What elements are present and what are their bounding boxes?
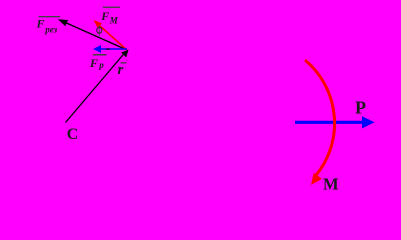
vector F_M (red magnetic force arrow from P up-left) <box>94 20 128 50</box>
svg-text:F: F <box>89 56 98 70</box>
label F_p with overline and subscript <box>89 54 106 70</box>
label F_rez with overline and subscript <box>36 16 61 35</box>
small dark mark on F_p shaft <box>106 48 109 50</box>
svg-text:М: М <box>323 175 339 194</box>
svg-text:р: р <box>98 60 104 70</box>
angle phi symbol <box>97 26 102 36</box>
svg-text:r: r <box>118 62 124 78</box>
vector F_p (blue force arrow from P pointing left) <box>93 45 127 53</box>
label r with overline <box>118 62 127 78</box>
label F_M with overline and subscript <box>100 7 120 26</box>
vector F_rez (resultant force, black arrow from P up-left) <box>58 19 127 50</box>
svg-text:Р: Р <box>355 98 366 118</box>
svg-text:F: F <box>36 17 45 31</box>
vector r (radius vector from C to P, black arrow) <box>66 50 129 123</box>
svg-text:рез: рез <box>44 25 57 35</box>
svg-text:М: М <box>109 16 119 26</box>
vector B (blue horizontal field arrow, right diagram) <box>295 116 375 128</box>
torque arc M (red curved arrow) <box>305 60 335 185</box>
svg-text:C: C <box>67 126 79 143</box>
svg-text:F: F <box>100 9 109 23</box>
